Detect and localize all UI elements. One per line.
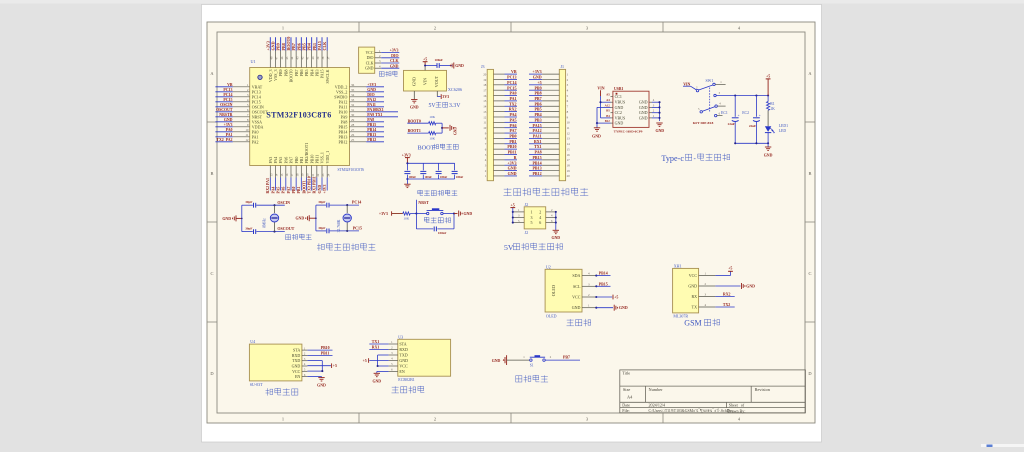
svg-text:26: 26 (351, 133, 355, 137)
svg-text:Title: Title (622, 371, 630, 376)
svg-text:Sheet of: Sheet of (729, 403, 745, 408)
svg-text:VCC: VCC (399, 364, 408, 369)
NRST node (415, 200, 429, 229)
svg-text:DIO: DIO (367, 93, 374, 97)
VIN power port (597, 86, 604, 96)
svg-text:100nF: 100nF (409, 176, 417, 179)
svg-text:J1: J1 (561, 64, 565, 69)
svg-text:10K: 10K (403, 216, 409, 220)
svg-text:22uF: 22uF (749, 124, 756, 128)
caption: 5V step-down 3.3V (429, 102, 462, 109)
svg-text:PB11: PB11 (321, 351, 330, 355)
svg-text:VCC: VCC (292, 369, 301, 374)
svg-text:PB3: PB3 (534, 117, 541, 122)
GSM ground (715, 283, 755, 289)
svg-text:PB1: PB1 (297, 187, 301, 194)
svg-text:GND: GND (746, 285, 755, 289)
caption: 5V external backup power (504, 243, 563, 252)
svg-text:C:\Users\.\T119\T103&GSM±¨£¯¶¦: C:\Users\.\T119\T103&GSM±¨£¯¶¦¼ì²â¾¯±¨Í·… (649, 408, 734, 413)
svg-text:GND: GND (367, 88, 376, 92)
svg-text:PA2: PA2 (252, 139, 259, 144)
resistor R3 10K (429, 132, 443, 141)
crystal X1 left wire (241, 205, 243, 231)
svg-text:30pF: 30pF (245, 227, 252, 231)
svg-text:B: B (809, 171, 812, 176)
svg-text:20: 20 (483, 72, 487, 76)
crystal X1 top wire (242, 204, 285, 206)
svg-text:OSCIN: OSCIN (220, 103, 233, 107)
svg-text:R: R (514, 155, 517, 160)
svg-text:PC14: PC14 (507, 80, 516, 85)
svg-text:GND: GND (222, 217, 231, 221)
svg-text:STA: STA (399, 342, 406, 347)
svg-text:30pF: 30pF (318, 200, 325, 204)
svg-text:+3V3: +3V3 (224, 123, 233, 127)
caption: download port (379, 71, 397, 77)
svg-text:PA12: PA12 (533, 128, 542, 133)
MCU U1 body (250, 68, 350, 166)
svg-text:VIN: VIN (597, 86, 604, 90)
caption: MCU minimal system (317, 243, 376, 251)
svg-text:13: 13 (483, 110, 487, 114)
svg-text:PB13: PB13 (367, 133, 376, 137)
GSM XH1 body (673, 268, 699, 313)
svg-text:RX2: RX2 (509, 107, 517, 112)
svg-text:PA7: PA7 (509, 128, 516, 133)
PB15 net label (596, 282, 610, 286)
svg-text:2: 2 (539, 210, 541, 215)
sheet inner border (217, 32, 805, 413)
crystal X2 left wire (315, 205, 317, 231)
svg-text:STM32F103C8T6: STM32F103C8T6 (338, 168, 365, 172)
svg-text:PC13: PC13 (507, 75, 516, 80)
BOOT0 net label (407, 119, 428, 123)
BOOT1 net label (407, 129, 428, 133)
MCU U1 left pins (233, 83, 269, 144)
filter rail ground (404, 179, 410, 188)
svg-text:+3V3: +3V3 (402, 153, 411, 157)
svg-text:TX: TX (692, 305, 697, 310)
svg-text:15: 15 (567, 147, 571, 151)
svg-text:VCC: VCC (572, 295, 581, 300)
bluetooth +5 power (363, 358, 389, 363)
svg-text:12: 12 (483, 115, 487, 119)
svg-text:GND: GND (639, 115, 648, 120)
svg-text:TXD: TXD (399, 353, 407, 358)
svg-text:PC14: PC14 (223, 93, 232, 97)
svg-text:GND: GND (508, 171, 517, 176)
USB1 right ground (655, 123, 664, 133)
download port P1 body (359, 47, 375, 73)
svg-text:GND: GND (317, 384, 326, 388)
svg-text:A12: A12 (605, 103, 611, 107)
svg-text:1K: 1K (770, 107, 775, 111)
svg-text:GND: GND (224, 118, 233, 122)
connector J2 designators (525, 202, 529, 235)
USB1 connector body (613, 91, 649, 127)
RX2 net label (715, 292, 734, 296)
caption: GSM module (684, 318, 719, 327)
resistor R2 10K (429, 115, 443, 125)
svg-text:+5: +5 (511, 203, 515, 207)
svg-text:Revision: Revision (755, 387, 771, 392)
RX1 net label (369, 346, 388, 350)
svg-text:PA15: PA15 (533, 123, 542, 128)
svg-text:PA7: PA7 (287, 187, 291, 194)
svg-text:U2: U2 (546, 264, 551, 269)
svg-text:TX2: TX2 (509, 101, 517, 106)
svg-text:30pF: 30pF (318, 226, 325, 230)
svg-text:PA11: PA11 (367, 103, 376, 107)
svg-text:PC14: PC14 (352, 200, 361, 205)
PB11 net label (307, 351, 332, 355)
svg-text:U4: U4 (250, 339, 255, 344)
display +5 power (596, 295, 618, 300)
TX1 net label (369, 340, 388, 344)
svg-text:SDA: SDA (572, 273, 580, 278)
svg-text:+5: +5 (614, 296, 618, 300)
svg-text:OLED: OLED (546, 314, 557, 319)
svg-text:PA9 TX1: PA9 TX1 (367, 113, 382, 117)
svg-text:Date: Date (622, 403, 630, 408)
svg-text:A4: A4 (627, 394, 633, 399)
crystal Y2 32.768K (337, 205, 351, 232)
svg-text:VIN: VIN (683, 82, 690, 86)
svg-text:14: 14 (567, 142, 571, 146)
svg-text:GND: GND (639, 105, 648, 110)
bluetooth VCC wire (377, 365, 389, 367)
svg-text:RXD: RXD (399, 347, 408, 352)
svg-text:PA1: PA1 (509, 96, 516, 101)
svg-text:B5: B5 (606, 109, 610, 113)
svg-text:CC1: CC1 (615, 94, 622, 99)
svg-text:16: 16 (567, 153, 571, 157)
svg-text:PB15: PB15 (367, 123, 376, 127)
svg-text:PB15: PB15 (532, 155, 541, 160)
svg-text:PB5: PB5 (534, 107, 541, 112)
svg-text:GND: GND (292, 364, 301, 369)
svg-text:VCC: VCC (366, 51, 374, 55)
svg-text:3V3: 3V3 (442, 95, 449, 99)
svg-text:100nF: 100nF (440, 176, 448, 179)
svg-text:19: 19 (567, 169, 571, 173)
svg-text:GND: GND (492, 359, 501, 363)
svg-text:NRSTR: NRSTR (219, 113, 232, 117)
svg-text:28: 28 (351, 123, 355, 127)
svg-text:RX3 PB11: RX3 PB11 (313, 176, 317, 193)
svg-text:3.3V: 3.3V (449, 103, 461, 109)
svg-text:XC6206: XC6206 (448, 87, 462, 92)
svg-text:25: 25 (351, 138, 355, 142)
svg-text:A4: A4 (606, 98, 610, 102)
svg-text:27: 27 (351, 128, 355, 132)
svg-text:34: 34 (351, 93, 355, 97)
MCU U1 bottom net labels (266, 176, 327, 193)
J2 right GND bus (551, 211, 560, 240)
svg-text:19: 19 (483, 78, 487, 82)
svg-text:PB14: PB14 (532, 160, 541, 165)
svg-text:A5: A5 (606, 93, 610, 97)
caption: BOOT setup circuit (418, 144, 459, 152)
bluetooth U3 body (398, 339, 451, 376)
sheet zone ticks (358, 22, 360, 32)
svg-text:TX3 PB10: TX3 PB10 (308, 176, 312, 193)
svg-text:CLK: CLK (366, 61, 374, 65)
svg-text:11: 11 (245, 133, 248, 137)
regulator U5 XC6206 body (404, 70, 447, 91)
svg-text:10: 10 (567, 121, 571, 125)
type-c ground (764, 143, 773, 157)
svg-text:2: 2 (434, 26, 436, 31)
svg-text:VOUT: VOUT (434, 75, 439, 87)
svg-text:PA12: PA12 (367, 98, 376, 102)
svg-text:18: 18 (567, 164, 571, 168)
svg-text:2024/12/4: 2024/12/4 (649, 403, 666, 408)
caption: reset circuit (424, 217, 451, 223)
svg-text:OSCIN: OSCIN (277, 200, 290, 205)
bluetooth EN ground (372, 372, 388, 384)
svg-text:STA: STA (293, 348, 300, 353)
svg-text:GND: GND (372, 379, 381, 383)
svg-text:100nF: 100nF (425, 176, 433, 179)
capacitor 100nF at VIN (435, 58, 453, 68)
svg-text:C: C (211, 271, 214, 276)
voice module pins (292, 346, 308, 379)
reset +3V3 source (379, 211, 398, 216)
svg-text:+5: +5 (423, 58, 427, 62)
svg-text:SWCLK: SWCLK (325, 69, 330, 83)
caption: display (567, 319, 591, 326)
svg-text:S1: S1 (530, 363, 534, 367)
svg-text:1: 1 (282, 26, 284, 31)
svg-text:35: 35 (351, 88, 355, 92)
voice +5 power (307, 363, 337, 368)
svg-text:BOOT: BOOT (418, 144, 435, 151)
caption: MCU pin breakout headers (503, 188, 588, 196)
svg-text:GND: GND (318, 185, 322, 194)
svg-text:PB12: PB12 (338, 139, 347, 144)
svg-text:OLED: OLED (551, 285, 556, 296)
crystal X1 bottom wire (242, 231, 285, 233)
svg-text:36: 36 (351, 83, 355, 87)
crystal X2 ground (296, 215, 317, 221)
regulator GND pin ground (410, 91, 419, 109)
resistor R1 1K (767, 96, 776, 127)
USB1 right GND bus (652, 101, 661, 121)
svg-text:+5: +5 (363, 359, 367, 363)
wire VIN node (424, 64, 437, 70)
svg-text:GND: GND (615, 121, 624, 126)
regulator VOUT to 3V3 (437, 91, 449, 99)
header J1 net labels (529, 69, 542, 176)
svg-text:+5: +5 (333, 364, 337, 368)
svg-text:100nF: 100nF (435, 58, 444, 62)
LED1 (765, 124, 788, 143)
svg-text:OSCOUT: OSCOUT (216, 108, 233, 112)
svg-text:PB14: PB14 (599, 272, 608, 276)
crystal Y1 8MHz (263, 205, 279, 231)
svg-text:GND: GND (464, 212, 473, 216)
svg-text:18: 18 (483, 83, 487, 87)
svg-text:NRST: NRST (418, 201, 429, 205)
connector J2 body (524, 207, 546, 229)
filter capacitors C5-C8 (404, 162, 463, 180)
svg-text:File:: File: (622, 408, 630, 413)
power +3V3 filter rail (402, 153, 411, 163)
header J3 net labels (505, 69, 518, 176)
svg-text:12: 12 (245, 138, 249, 142)
svg-text:30pF: 30pF (245, 200, 252, 204)
svg-text:RX1: RX1 (534, 139, 542, 144)
crystal X2 top wire (316, 204, 359, 206)
svg-text:PB1: PB1 (509, 139, 516, 144)
svg-text:EN: EN (295, 374, 300, 379)
svg-text:PA6: PA6 (282, 187, 286, 194)
svg-text:14: 14 (483, 105, 487, 109)
svg-text:PA4: PA4 (509, 112, 516, 117)
svg-text:Type-c: Type-c (661, 154, 684, 163)
svg-text:TX1: TX1 (534, 144, 542, 149)
svg-text:PB8: PB8 (534, 91, 541, 96)
BOOT junction wires (441, 123, 443, 133)
svg-text:PB6: PB6 (534, 101, 541, 106)
white page (202, 5, 822, 443)
svg-text:RX: RX (691, 294, 697, 299)
display U2 body (545, 269, 582, 312)
capacitor C2 30pF (245, 227, 256, 234)
svg-text:29: 29 (351, 118, 355, 122)
svg-text:XH1: XH1 (674, 263, 682, 268)
svg-text:30: 30 (351, 113, 355, 117)
svg-text:PB0: PB0 (509, 134, 516, 139)
svg-text:16: 16 (483, 94, 487, 98)
svg-text:17: 17 (567, 158, 571, 162)
svg-text:PA5: PA5 (509, 117, 516, 122)
svg-text:PC15: PC15 (223, 98, 232, 102)
capacitor C4 30pF (318, 226, 329, 233)
svg-text:OSCOUT: OSCOUT (277, 226, 294, 231)
caption: crystal circuit (286, 234, 312, 240)
reset right wire and ground (453, 211, 472, 229)
svg-text:EC2: EC2 (742, 111, 749, 115)
capacitor C1 30pF (245, 200, 256, 207)
key right wire PB7 (545, 355, 580, 360)
display U2 pins (572, 272, 598, 311)
svg-text:PB10: PB10 (507, 144, 516, 149)
svg-text:32.768K: 32.768K (337, 219, 341, 232)
voice TXD wire (307, 361, 322, 372)
svg-text:VCC: VCC (689, 273, 698, 278)
svg-text:11: 11 (567, 126, 570, 130)
svg-text:CLK: CLK (390, 59, 398, 63)
svg-text:GND: GND (365, 67, 374, 71)
svg-text:J2: J2 (525, 202, 529, 207)
svg-text:GND: GND (508, 166, 517, 171)
svg-text:PA0: PA0 (226, 128, 233, 132)
svg-text:PC15: PC15 (353, 226, 362, 231)
download port net labels (381, 49, 399, 69)
svg-text:10: 10 (483, 126, 487, 130)
MCU U1 bottom pins (268, 143, 330, 178)
svg-text:15: 15 (483, 99, 487, 103)
USB1 right pins (639, 98, 655, 120)
MCU U1 top pins (268, 50, 330, 84)
svg-text:20: 20 (567, 174, 571, 178)
caption: independent key (516, 375, 548, 383)
svg-text:BOOT1: BOOT1 (302, 180, 306, 193)
svg-text:8MHz: 8MHz (263, 218, 267, 228)
svg-text:SW1: SW1 (706, 79, 714, 83)
svg-text:PC15: PC15 (507, 85, 516, 90)
svg-text:TX1: TX1 (372, 340, 379, 344)
svg-text:+3V3: +3V3 (323, 185, 327, 194)
svg-text:+5: +5 (766, 75, 770, 79)
svg-text:B: B (211, 171, 214, 176)
svg-text:GND: GND (410, 105, 419, 109)
svg-text:C: C (809, 271, 812, 276)
caption: voice alarm (266, 388, 298, 396)
svg-text:+3V3: +3V3 (379, 212, 388, 216)
svg-text:33: 33 (351, 98, 355, 102)
title block (620, 370, 806, 413)
svg-text:U3: U3 (398, 334, 403, 339)
MCU U1 right pins (334, 83, 366, 144)
key left wire (507, 355, 530, 360)
svg-text:PC13: PC13 (223, 88, 232, 92)
svg-text:GND: GND (551, 236, 560, 240)
key button S1 (530, 355, 546, 367)
VIN label at switch (683, 82, 697, 90)
J2 left +5 bus (510, 203, 515, 223)
svg-text:GND: GND (454, 127, 458, 135)
PB10 net label (307, 346, 332, 350)
power rail from switch (716, 94, 769, 96)
svg-text:SU-03T: SU-03T (250, 382, 263, 387)
svg-text:+: + (738, 113, 740, 117)
VBUS bus wires (599, 96, 610, 118)
bottom rail of type-c circuit (734, 142, 769, 144)
svg-text:+5: +5 (537, 80, 541, 85)
svg-text:GND: GND (390, 64, 399, 68)
svg-text:PB12: PB12 (367, 138, 376, 142)
bottom-right scrollbar fragment (981, 444, 1024, 447)
svg-text:B12: B12 (605, 119, 611, 123)
GND bus wires (596, 107, 611, 124)
resistor R4 10K (398, 212, 416, 220)
capacitor EC1 22uF (721, 96, 740, 144)
svg-text:GND: GND (412, 77, 417, 86)
svg-text:VIN: VIN (423, 78, 428, 85)
caption: chip filter capacitors (418, 190, 458, 196)
svg-text:TYPEC-16SD-6CP9: TYPEC-16SD-6CP9 (614, 129, 643, 133)
svg-text:PB14: PB14 (367, 128, 376, 132)
ground right of capacitor (450, 63, 464, 69)
svg-text:RX2 PA3: RX2 PA3 (266, 178, 270, 193)
svg-text:5V: 5V (429, 103, 437, 109)
svg-text:PB12: PB12 (532, 171, 541, 176)
svg-text:PA5: PA5 (277, 187, 281, 194)
caption: Type-c power circuit (661, 153, 729, 162)
USB1 left pins (605, 93, 626, 126)
svg-text:+3V3: +3V3 (367, 83, 376, 87)
sheet background (207, 22, 815, 423)
svg-text:GND: GND (619, 306, 628, 310)
svg-text:12: 12 (567, 131, 571, 135)
svg-text:R1: R1 (770, 102, 775, 106)
svg-text:GND: GND (572, 305, 581, 310)
svg-text:TXD: TXD (292, 358, 300, 363)
svg-text:22uF: 22uF (728, 122, 735, 126)
